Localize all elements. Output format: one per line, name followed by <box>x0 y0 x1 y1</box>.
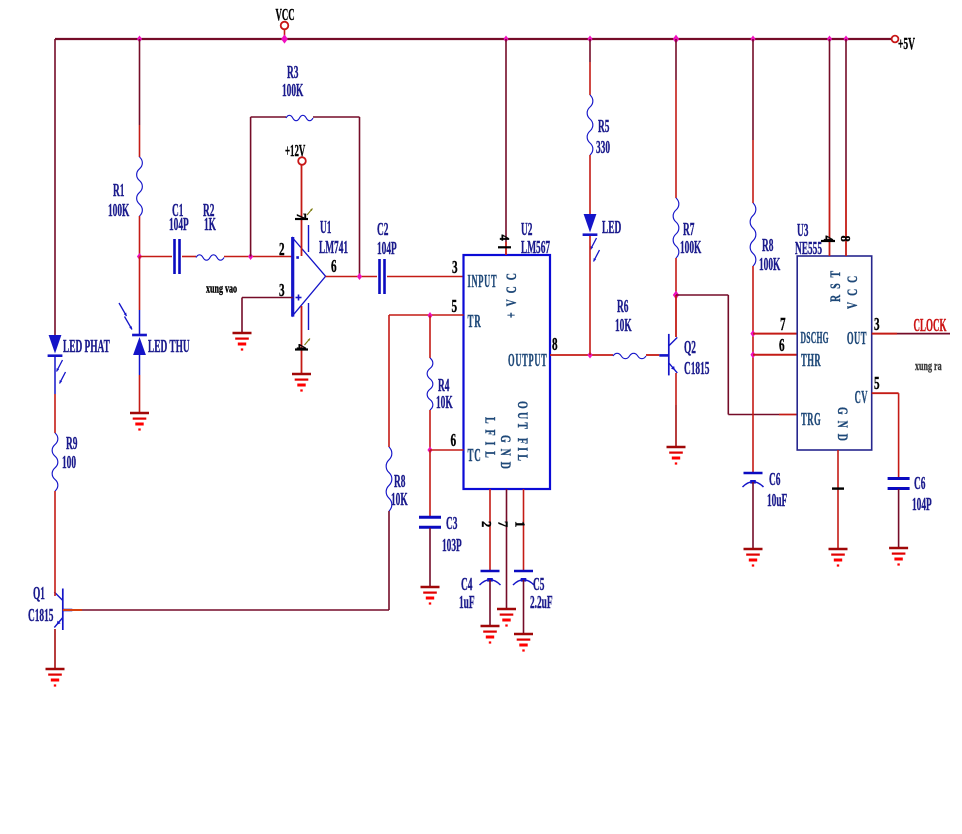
svg-text:LED: LED <box>602 218 621 238</box>
svg-text:10K: 10K <box>615 316 632 336</box>
svg-text:GND: GND <box>497 435 514 475</box>
svg-text:10K: 10K <box>436 393 453 413</box>
svg-text:C1815: C1815 <box>28 606 53 626</box>
svg-text:4: 4 <box>821 236 837 243</box>
svg-text:104P: 104P <box>169 215 189 235</box>
svg-text:U1: U1 <box>320 218 331 238</box>
svg-text:10uF: 10uF <box>767 491 787 511</box>
svg-text:R1: R1 <box>113 181 124 201</box>
svg-text:VCC: VCC <box>844 270 861 309</box>
svg-text:TRG: TRG <box>801 410 821 430</box>
svg-text:R5: R5 <box>598 117 609 137</box>
svg-text:2: 2 <box>279 241 285 260</box>
svg-text:LED THU: LED THU <box>148 337 190 357</box>
svg-text:C3: C3 <box>446 514 457 534</box>
svg-text:INPUT: INPUT <box>468 272 498 292</box>
svg-text:xung vao: xung vao <box>206 282 237 296</box>
svg-text:+5V: +5V <box>898 34 915 53</box>
svg-text:104P: 104P <box>912 495 932 515</box>
svg-text:7: 7 <box>495 521 511 528</box>
svg-text:103P: 103P <box>442 536 462 556</box>
svg-text:Q2: Q2 <box>684 338 696 358</box>
svg-text:3: 3 <box>874 316 880 335</box>
svg-text:LFIL: LFIL <box>482 417 499 464</box>
svg-text:3: 3 <box>279 282 285 301</box>
svg-text:5: 5 <box>452 298 458 317</box>
svg-text:R6: R6 <box>617 297 628 317</box>
svg-text:OUT FIL: OUT FIL <box>514 401 531 464</box>
svg-text:100K: 100K <box>108 201 130 221</box>
svg-text:R9: R9 <box>66 434 77 454</box>
svg-text:330: 330 <box>596 138 610 158</box>
svg-text:DSCHG: DSCHG <box>801 328 829 347</box>
svg-text:5: 5 <box>874 375 880 394</box>
svg-text:OUT: OUT <box>847 329 867 349</box>
svg-text:104P: 104P <box>377 239 397 259</box>
svg-text:TR: TR <box>468 312 482 332</box>
svg-text:8: 8 <box>838 236 854 243</box>
svg-text:8: 8 <box>552 336 558 355</box>
svg-text:GND: GND <box>834 407 851 447</box>
svg-text:C6: C6 <box>769 470 780 490</box>
svg-text:VCC: VCC <box>276 5 295 24</box>
svg-text:6: 6 <box>331 258 337 277</box>
svg-text:THR: THR <box>801 351 821 371</box>
svg-text:NE555: NE555 <box>795 239 822 259</box>
svg-text:100K: 100K <box>759 255 781 275</box>
svg-text:4: 4 <box>294 344 310 351</box>
svg-text:1K: 1K <box>204 215 217 235</box>
svg-text:6: 6 <box>451 432 457 451</box>
svg-text:4: 4 <box>497 235 513 242</box>
svg-text:6: 6 <box>779 337 785 356</box>
svg-text:Q1: Q1 <box>33 584 45 604</box>
svg-text:C1815: C1815 <box>684 359 709 379</box>
svg-text:100K: 100K <box>680 238 702 258</box>
svg-text:TC: TC <box>468 446 482 466</box>
svg-text:CLOCK: CLOCK <box>914 316 947 336</box>
svg-text:100K: 100K <box>282 81 304 101</box>
svg-text:LM741: LM741 <box>319 238 348 258</box>
svg-text:100: 100 <box>62 453 76 473</box>
svg-text:10K: 10K <box>391 490 408 510</box>
svg-text:3: 3 <box>452 259 458 278</box>
svg-text:xung ra: xung ra <box>915 359 942 373</box>
svg-text:2: 2 <box>479 521 495 528</box>
svg-text:7: 7 <box>780 316 786 335</box>
svg-text:+VCC: +VCC <box>503 267 520 318</box>
svg-text:RST: RST <box>827 265 844 302</box>
svg-text:1uF: 1uF <box>459 593 475 613</box>
svg-text:C2: C2 <box>377 220 388 240</box>
svg-text:LM567: LM567 <box>521 238 550 258</box>
svg-text:2.2uF: 2.2uF <box>530 593 553 613</box>
svg-text:LED PHAT: LED PHAT <box>63 337 110 357</box>
svg-text:R8: R8 <box>762 236 773 256</box>
svg-text:C6: C6 <box>914 474 925 494</box>
svg-text:CV: CV <box>855 388 868 408</box>
svg-text:OUTPUT: OUTPUT <box>508 351 547 371</box>
svg-text:1: 1 <box>512 521 528 527</box>
